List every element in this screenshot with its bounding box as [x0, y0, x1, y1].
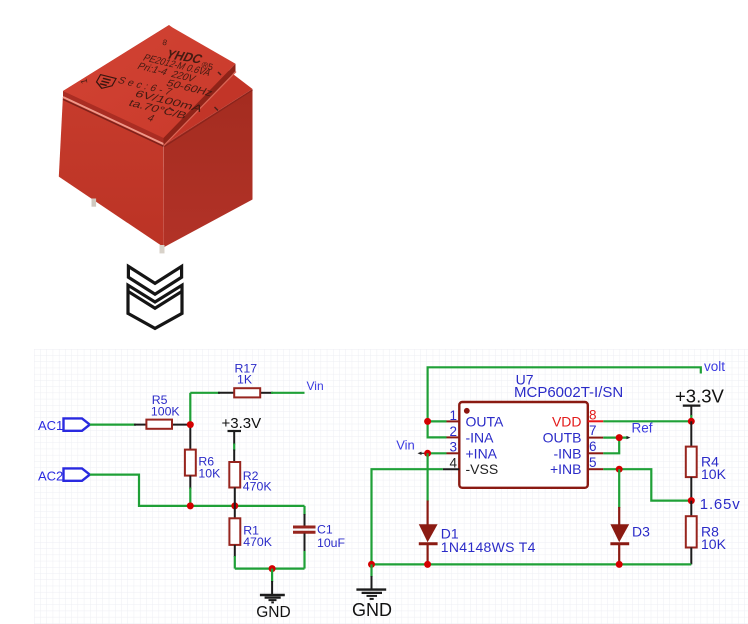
pin 8	[588, 420, 604, 422]
wire OUTB to -INB with Ref tap	[603, 436, 630, 453]
svg-text:+3.3V: +3.3V	[222, 415, 262, 432]
resistor R1	[229, 506, 272, 569]
pin 1	[447, 420, 460, 422]
wire OUTA to -INA feedback	[428, 421, 447, 437]
diode D1 1N4148WS T4	[419, 453, 536, 564]
svg-text:1: 1	[449, 408, 457, 423]
svg-text:470K: 470K	[243, 535, 273, 549]
wire +INB to divider mid	[603, 469, 691, 500]
svg-text:VDD: VDD	[552, 413, 582, 429]
svg-text:10K: 10K	[198, 466, 221, 480]
pin 2	[447, 436, 460, 438]
resistor R8	[686, 501, 727, 565]
wire volt (OUTA to top right)	[428, 367, 701, 421]
svg-text:Vin: Vin	[396, 437, 415, 452]
svg-text:100K: 100K	[151, 404, 181, 418]
svg-text:+INA: +INA	[466, 445, 498, 461]
svg-text:AC2: AC2	[38, 469, 63, 484]
svg-text:10K: 10K	[701, 466, 727, 482]
svg-text:4: 4	[449, 456, 457, 471]
svg-text:GND: GND	[352, 600, 392, 620]
wire VDD pin8 to +3.3V rail	[603, 420, 691, 422]
wire bottom rail (right section)	[372, 563, 692, 565]
transformer photo (PE2012-M PCB transformer)	[59, 25, 253, 253]
port AC2	[38, 468, 90, 483]
pin 5	[588, 468, 604, 470]
resistor R6	[185, 428, 221, 506]
svg-text:Vin: Vin	[307, 379, 324, 393]
junction node +INA	[424, 450, 431, 457]
junction node R2/R1	[231, 502, 238, 509]
svg-text:8: 8	[589, 407, 597, 422]
svg-text:5: 5	[589, 455, 597, 470]
wire node to R17 and Vin	[190, 393, 304, 425]
power +3.3V (left)	[222, 415, 262, 462]
svg-text:-INA: -INA	[466, 429, 495, 445]
svg-text:Ref: Ref	[632, 421, 653, 436]
svg-text:MCP6002T-I/SN: MCP6002T-I/SN	[514, 384, 623, 401]
svg-text:10K: 10K	[701, 536, 727, 552]
svg-text:-INB: -INB	[554, 445, 582, 461]
svg-text:AC1: AC1	[38, 418, 63, 433]
resistor R2	[229, 462, 272, 506]
junction node 1.65v	[688, 497, 695, 504]
resistor R4	[686, 421, 727, 500]
svg-text:6: 6	[589, 439, 597, 454]
wire -VSS to left rail	[372, 469, 443, 564]
diode D3	[610, 469, 650, 564]
pin 6	[588, 452, 604, 454]
capacitor C1	[293, 506, 346, 569]
svg-text:+INB: +INB	[550, 461, 582, 477]
wire AC2 to node row	[90, 475, 191, 506]
svg-text:OUTB: OUTB	[543, 429, 582, 445]
resistor R17	[234, 362, 260, 398]
svg-text:-VSS: -VSS	[466, 461, 499, 477]
junction node R5/R17/R6	[187, 421, 194, 428]
svg-text:1.65v: 1.65v	[700, 496, 741, 513]
junction node +3.3V rail	[688, 418, 695, 425]
junction node OUTB/Ref	[616, 434, 623, 441]
svg-text:OUTA: OUTA	[466, 413, 505, 429]
ground GND (left)	[256, 569, 290, 621]
junction node D3 bottom	[616, 561, 623, 568]
wire +INA	[428, 452, 447, 454]
pin 7	[588, 437, 604, 439]
svg-text:3: 3	[449, 440, 457, 455]
junction node OUTA	[424, 418, 431, 425]
junction node D1 bottom	[424, 561, 431, 568]
down-chevron symbol	[128, 266, 182, 328]
junction node R6 bottom	[187, 502, 194, 509]
junction node rail/GND	[368, 561, 375, 568]
svg-text:1K: 1K	[237, 373, 253, 387]
wire bottom row (left section)	[235, 567, 305, 569]
ground GND (right)	[352, 564, 392, 620]
op-amp U7 MCP6002T-I/SN	[443, 372, 623, 488]
svg-text:7: 7	[589, 423, 597, 438]
wire AC1 to R5	[90, 424, 191, 426]
svg-text:2: 2	[449, 424, 457, 439]
pin 3	[447, 452, 460, 454]
junction node GND (left)	[269, 565, 276, 572]
svg-text:1N4148WS T4: 1N4148WS T4	[441, 539, 536, 555]
pin 4	[443, 468, 459, 470]
net label Vin (right, with arrow)	[396, 437, 426, 455]
wire mid row	[190, 505, 304, 507]
svg-text:470K: 470K	[243, 479, 273, 493]
svg-text:C1: C1	[317, 522, 333, 536]
port AC1	[38, 418, 90, 433]
resistor R5	[146, 393, 180, 429]
svg-text:10uF: 10uF	[317, 536, 346, 550]
power +3.3V (right)	[675, 385, 725, 421]
svg-text:D3: D3	[632, 523, 650, 539]
junction node +INB	[616, 466, 623, 473]
svg-text:+3.3V: +3.3V	[675, 385, 725, 406]
svg-text:GND: GND	[256, 604, 290, 621]
svg-text:volt: volt	[704, 359, 725, 374]
